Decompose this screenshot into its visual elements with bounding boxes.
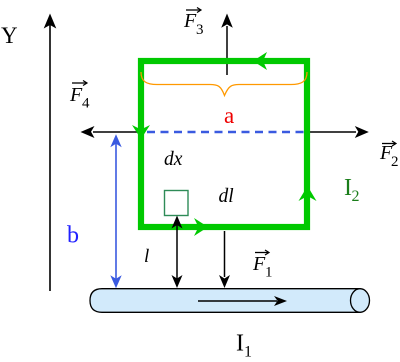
- svg-text:2: 2: [352, 188, 360, 205]
- current element square: [165, 191, 189, 216]
- dashed flux line node a: [147, 131, 304, 134]
- brace over side a: [141, 72, 307, 96]
- loop current arrow right (up): [299, 186, 317, 201]
- loop current arrow left (down): [132, 125, 150, 139]
- dimension b arrow: [110, 134, 121, 288]
- svg-text:F: F: [183, 10, 197, 32]
- svg-text:Y: Y: [1, 23, 18, 48]
- force F4 arrow: [81, 126, 142, 138]
- wire current arrow: [198, 296, 287, 306]
- svg-text:1: 1: [265, 265, 273, 281]
- force F2 label: [379, 141, 399, 170]
- current I2 label: [344, 175, 360, 205]
- Y axis: [44, 14, 57, 292]
- wire I1 cylinder end cap: [351, 289, 370, 313]
- svg-text:l: l: [144, 246, 149, 267]
- force F3 label: [183, 8, 204, 39]
- loop current arrow top (left): [253, 52, 267, 70]
- svg-text:2: 2: [391, 154, 399, 170]
- force F3 arrow: [221, 14, 233, 76]
- wire I1 cylinder body: [90, 289, 360, 313]
- svg-text:b: b: [67, 223, 79, 249]
- loop current arrow bottom (right): [194, 218, 208, 236]
- force F1 label: [252, 250, 273, 281]
- force F4 label: [69, 81, 90, 112]
- svg-text:4: 4: [82, 96, 90, 112]
- force F1 arrow: [219, 231, 230, 288]
- svg-text:3: 3: [196, 22, 204, 38]
- svg-text:dx: dx: [164, 149, 183, 170]
- force F2 arrow: [310, 126, 369, 138]
- svg-text:F: F: [252, 253, 266, 275]
- loop I2 square: [141, 61, 307, 227]
- dimension l arrow: [172, 216, 183, 289]
- svg-text:dl: dl: [219, 186, 234, 207]
- current I1 label: [236, 331, 252, 361]
- svg-text:a: a: [224, 103, 234, 128]
- svg-text:F: F: [69, 84, 83, 106]
- svg-text:I: I: [236, 331, 244, 357]
- svg-text:1: 1: [244, 344, 252, 361]
